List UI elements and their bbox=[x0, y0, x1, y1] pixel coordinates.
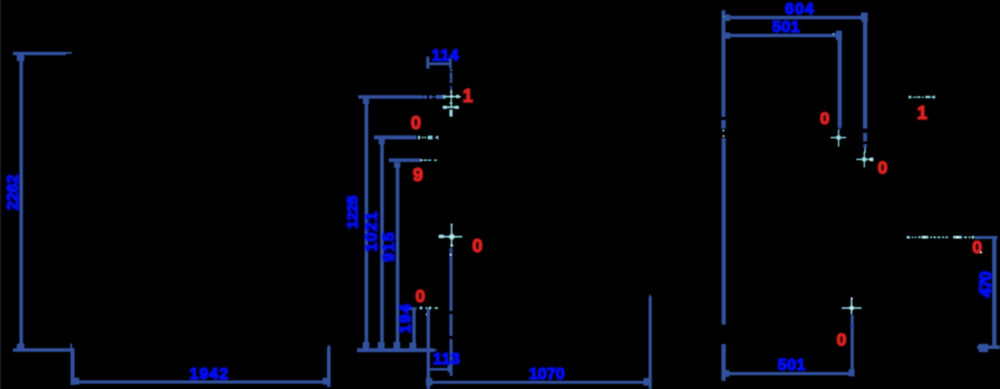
right cyan centerline (y237) bbox=[907, 235, 975, 239]
cyan centerline top right bbox=[908, 96, 935, 99]
svg-text:0: 0 bbox=[415, 286, 425, 306]
svg-text:1021: 1021 bbox=[363, 211, 381, 252]
1942 dim: left tick bbox=[73, 378, 79, 385]
svg-text:194: 194 bbox=[398, 303, 415, 333]
113 dim: right tick bbox=[448, 365, 451, 372]
svg-text:1225: 1225 bbox=[344, 195, 361, 229]
dim V2: bottom tick bbox=[378, 342, 385, 349]
svg-text:0: 0 bbox=[972, 237, 982, 257]
svg-text:2262: 2262 bbox=[5, 175, 22, 211]
right vert dim: top extension line bbox=[975, 236, 998, 239]
svg-text:501: 501 bbox=[778, 357, 806, 374]
1942 dim: left extension vertical bbox=[71, 348, 75, 385]
svg-text:9: 9 bbox=[413, 164, 423, 185]
dim V3: vertical dimension line bbox=[396, 163, 400, 346]
501 dim: dimension line bbox=[722, 34, 839, 37]
svg-text:1: 1 bbox=[917, 102, 927, 123]
vertical below crosshair to 501 dim bbox=[851, 315, 854, 373]
604 dim: right tick bbox=[861, 12, 868, 21]
dim V2: top tick bbox=[379, 139, 385, 144]
left dim: bottom tick bbox=[17, 344, 25, 350]
114 dim: dashed extension down to point bbox=[450, 69, 453, 72]
1070 dim: left tick bbox=[426, 378, 432, 386]
point marker P1 (451,96.5) bbox=[444, 89, 461, 98]
svg-text:915: 915 bbox=[381, 231, 398, 262]
dim V1: dash-dot toward point bbox=[423, 95, 428, 100]
svg-text:0: 0 bbox=[411, 112, 421, 133]
dim V4: vertical dimension line bbox=[412, 308, 415, 345]
point crosshair (838.5,137.6) bbox=[831, 130, 847, 147]
1942 dim: right extension vertical bbox=[327, 344, 331, 387]
svg-text:501: 501 bbox=[772, 19, 800, 36]
113 dim: dimension line bbox=[429, 368, 449, 371]
114 dim: left tick bbox=[426, 57, 429, 69]
point marker P2 (451,107.2) bbox=[443, 98, 460, 116]
113 right extension vertical bbox=[427, 309, 430, 389]
501 bottom dim: left tick bbox=[724, 370, 729, 377]
dim V3: top extension line bbox=[389, 158, 421, 162]
left extension vertical (x723) bbox=[722, 10, 726, 117]
dim V3: top tick bbox=[394, 162, 400, 168]
middle bottom extension line bbox=[357, 348, 434, 352]
dim V2: cyan marker bits at right bbox=[418, 135, 439, 140]
501 bottom dim: dimension line bbox=[724, 372, 853, 375]
1942 dim: right tick bbox=[323, 378, 329, 385]
svg-text:0: 0 bbox=[820, 109, 829, 128]
svg-text:113: 113 bbox=[433, 351, 460, 368]
left panel edge bbox=[0, 0, 1, 389]
left dim: top extension line bbox=[13, 52, 66, 55]
dim V1: vertical dimension line bbox=[365, 98, 369, 345]
1942 dim: dimension line bbox=[73, 380, 329, 383]
svg-text:0: 0 bbox=[472, 235, 482, 256]
114 dim: right tick bbox=[449, 59, 452, 68]
svg-text:1: 1 bbox=[463, 85, 473, 106]
right vert dim: bottom extension line bbox=[977, 345, 1000, 349]
dim V3: cyan arrow + dashes at right bbox=[420, 159, 423, 162]
vertical dashed line from P3 down bbox=[449, 248, 452, 311]
svg-text:1070: 1070 bbox=[529, 366, 565, 383]
left dim: top tick bbox=[17, 53, 25, 61]
604-dim extension vertical (x865) bbox=[863, 18, 867, 129]
1070 dim: right tick bbox=[643, 378, 649, 386]
right vert dim: dimension line bbox=[992, 238, 996, 347]
left dim: bottom extension line bbox=[13, 348, 71, 352]
dim V2: vertical dimension line bbox=[380, 140, 384, 345]
501 bottom dim: right tick bbox=[849, 369, 855, 376]
604 dim: dimension line bbox=[722, 16, 865, 19]
svg-text:604: 604 bbox=[785, 1, 815, 18]
604 dim: left tick bbox=[725, 14, 730, 21]
dim V1: top extension line bbox=[358, 95, 423, 99]
svg-text:0: 0 bbox=[837, 330, 847, 350]
dim V4: bottom tick bbox=[409, 343, 416, 350]
1070 dim: dimension line bbox=[429, 381, 648, 384]
svg-text:470: 470 bbox=[976, 272, 995, 298]
point crosshair (864.3,159.4) bbox=[856, 151, 873, 167]
right vert dim: bottom tick bbox=[979, 344, 989, 352]
svg-text:0: 0 bbox=[878, 158, 888, 178]
white speck on red 0 bbox=[980, 252, 982, 254]
svg-text:1942: 1942 bbox=[190, 366, 230, 383]
white speck below dim V4 point bbox=[426, 314, 428, 316]
tiny cyan dot at 501 right end bbox=[833, 33, 835, 35]
point crosshair big (851.5, 308) bbox=[842, 297, 862, 314]
501-dim extension vertical (x839.5) bbox=[838, 37, 842, 128]
dim V2: top extension line bbox=[374, 135, 417, 139]
dim V1: bottom tick bbox=[363, 342, 370, 349]
left dim: vertical dimension line bbox=[19, 55, 23, 345]
114 dim: dimension line bbox=[427, 62, 451, 65]
dim V4: small top ext line bbox=[404, 307, 417, 310]
dim V3: bottom tick bbox=[393, 342, 400, 349]
dim V1: top tick bbox=[363, 99, 369, 105]
svg-text:114: 114 bbox=[432, 47, 459, 64]
1070 dim: right extension vertical bbox=[649, 294, 652, 389]
point marker P3 big (451.6, 236.7) bbox=[438, 224, 462, 247]
dim V4: cyan dash-dot to point bbox=[419, 306, 438, 310]
501 dim: right tick bbox=[836, 31, 842, 41]
